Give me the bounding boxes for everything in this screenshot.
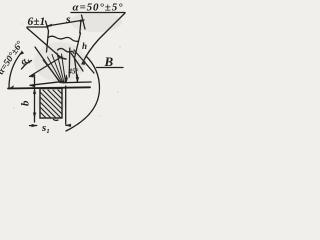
crossing line L7b <box>71 53 83 71</box>
flank line S1 <box>35 47 60 83</box>
s1 extension right <box>65 86 67 124</box>
blade right edge <box>80 20 81 33</box>
scan speckles <box>7 23 120 116</box>
blade left edge <box>47 31 49 52</box>
s1 dimension line <box>30 125 37 127</box>
scan haze <box>34 12 122 120</box>
s dimension line <box>47 20 84 26</box>
fan hatch lines <box>43 53 66 83</box>
view B underline <box>97 67 124 69</box>
crossing line L7 <box>74 50 94 73</box>
line S4 with arrow <box>30 81 64 85</box>
wavy break line 1 <box>48 36 79 41</box>
h dimension line <box>68 48 71 77</box>
label underline top right <box>71 12 125 14</box>
svg-text:α=50°±5°: α=50°±5° <box>73 2 124 14</box>
svg-text:s: s <box>65 12 71 26</box>
rect hatching <box>40 90 62 118</box>
bottom rect section <box>40 89 62 119</box>
wavy break line 2 <box>58 48 75 53</box>
tip flat line <box>64 81 92 84</box>
big break arc <box>66 56 100 131</box>
ground line <box>8 87 90 88</box>
svg-text:h: h <box>82 41 87 51</box>
blade right extension <box>82 15 86 29</box>
6+-1 underline <box>27 26 48 28</box>
tip width arrows <box>65 76 67 82</box>
line S3 with arrow <box>30 57 63 77</box>
svg-text:b: b <box>20 100 32 106</box>
svg-text:6±1: 6±1 <box>28 16 46 28</box>
small squiggle below rect <box>54 119 59 122</box>
blade left extension <box>46 21 49 31</box>
thick bar fragment <box>58 56 66 59</box>
leader from label down-left <box>82 13 125 64</box>
b dimension line <box>34 75 36 122</box>
svg-text:s₁: s₁ <box>41 122 50 134</box>
angle dim arc alpha <box>9 53 21 89</box>
line S2 from 6+-1 <box>27 28 62 59</box>
alpha1 small arc <box>22 61 32 70</box>
svg-text:В: В <box>104 54 114 69</box>
